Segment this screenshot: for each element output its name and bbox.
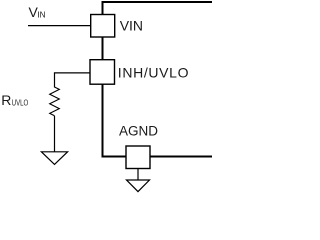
- ground (below AGND): [127, 180, 150, 192]
- wire: INH/UVLO pin to R_UVLO (horizontal + corner down): [55, 73, 91, 88]
- wire: AGND pin to ground: [137, 169, 139, 181]
- wire: R_UVLO to ground: [54, 116, 56, 152]
- wire: stub from top rail to VIN pin: [102, 2, 104, 15]
- wire: AGND bottom rail: [102, 156, 213, 158]
- wire: VIN top rail: [102, 1, 213, 3]
- svg-text:INH/UVLO: INH/UVLO: [118, 65, 189, 81]
- ground (below R_UVLO): [41, 152, 67, 165]
- svg-text:R: R: [1, 92, 11, 108]
- svg-text:UVLO: UVLO: [12, 99, 29, 108]
- pin box VIN: [91, 15, 115, 38]
- svg-text:VIN: VIN: [120, 17, 143, 33]
- svg-text:IN: IN: [37, 9, 45, 19]
- wire: left rail from INH/UVLO pin down to AGND rail: [102, 84, 104, 157]
- svg-text:AGND: AGND: [119, 124, 158, 139]
- wire: stub VIN pin to INH/UVLO pin: [102, 37, 104, 60]
- pin box AGND: [126, 146, 150, 169]
- resistor R_UVLO: [50, 87, 60, 116]
- wire: V_IN input: [28, 25, 91, 27]
- pin box INH/UVLO: [90, 60, 115, 84]
